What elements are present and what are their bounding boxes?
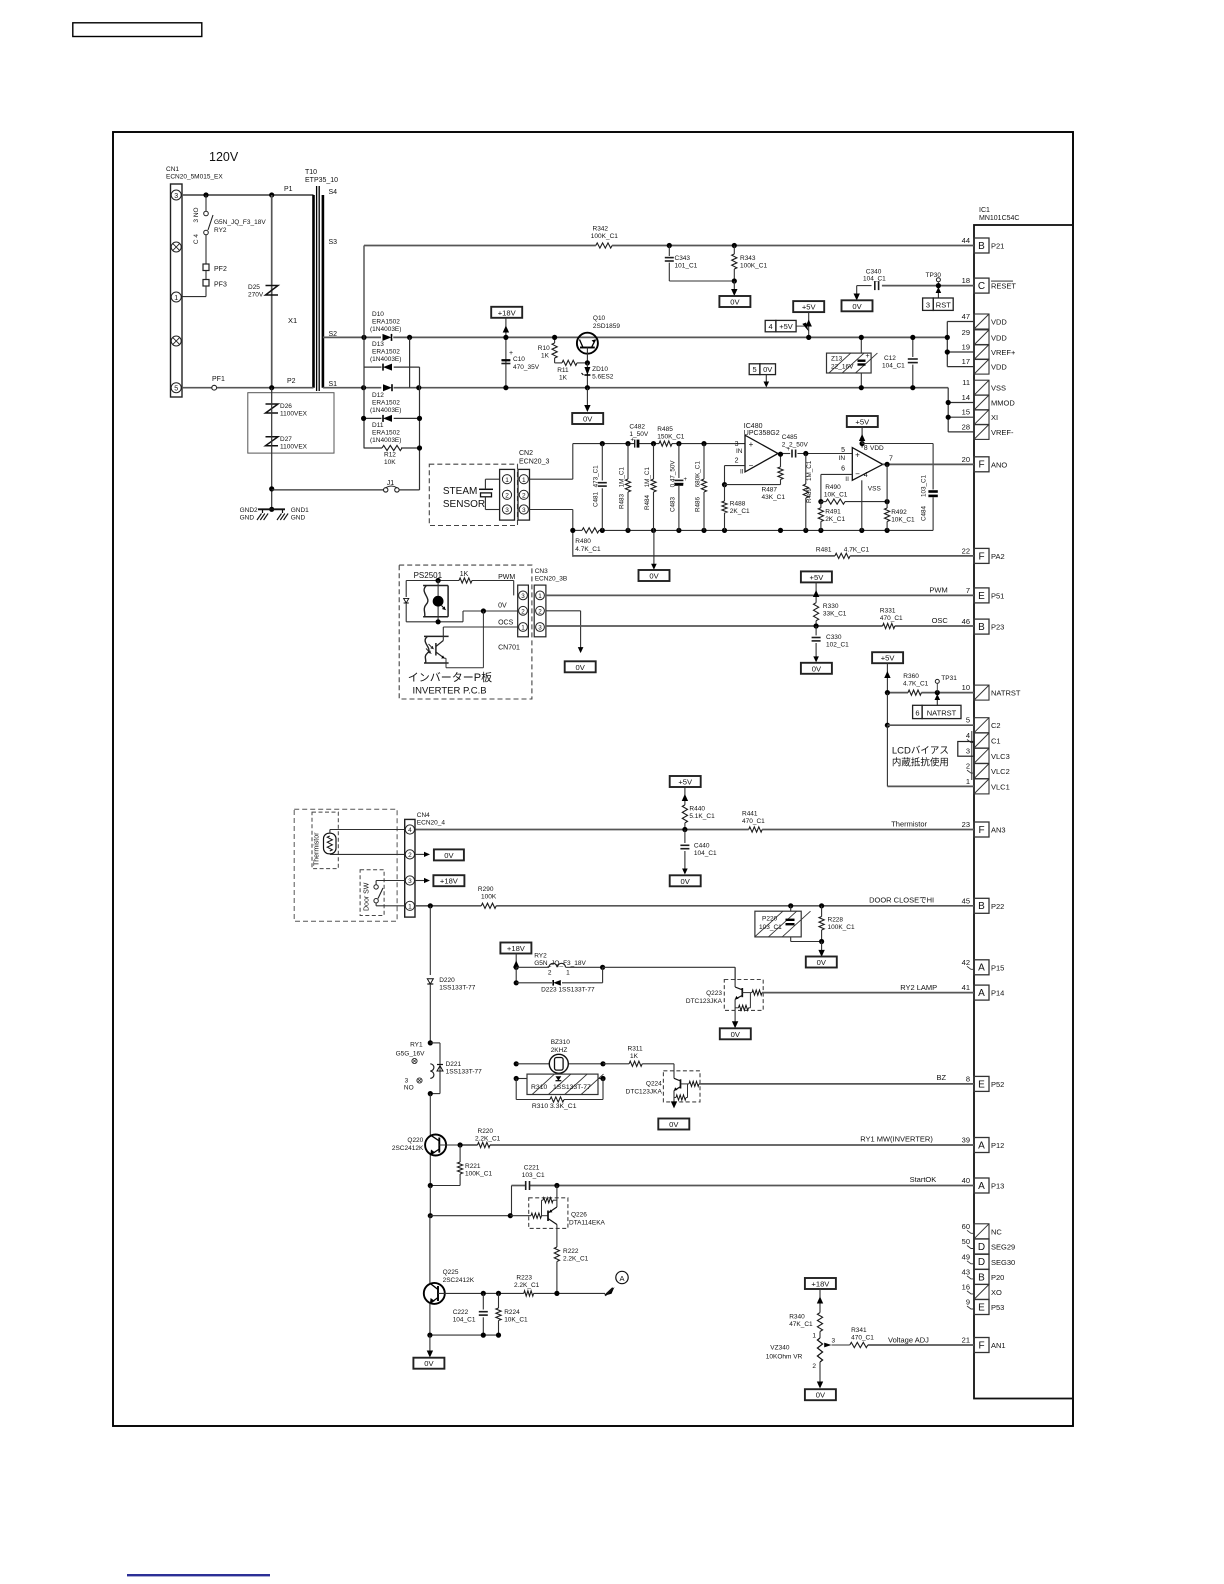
svg-text:ZD10: ZD10 [592,366,608,373]
svg-text:45: 45 [962,896,970,905]
wire opamp2 out to ANO [883,463,974,465]
optocoupler PS2501 A [423,585,448,587]
svg-text:R228: R228 [828,917,844,924]
svg-text:D12: D12 [372,392,384,399]
power +18V (RY2) [500,943,531,954]
junction DOOR cn4 [428,903,433,908]
junction C10 bot [503,385,508,390]
wire S3/P21 row [364,245,596,247]
wire opamp1 out [778,453,790,455]
svg-text:43K_C1: 43K_C1 [762,494,786,501]
svg-text:XO: XO [991,1288,1002,1297]
capacitor C485 (series) [791,450,793,458]
svg-text:PWM: PWM [929,586,947,595]
transformer T10 primary [312,195,315,388]
diode D13 [383,364,392,371]
capacitor C343 [668,246,670,257]
IC pin 2 VLC2 [974,764,989,779]
power +18V (top) [491,307,522,318]
power +5V (VDD) [793,301,824,312]
net box 3 RST [923,298,934,310]
svg-text:2: 2 [548,970,552,977]
junction VDD29 [945,335,950,340]
svg-text:II: II [740,469,744,476]
svg-text:0V: 0V [812,664,822,673]
svg-text:C482: C482 [629,424,645,431]
junction Q10 base [585,360,590,365]
svg-text:R484: R484 [644,494,651,510]
wire S1/0V rail [323,387,381,389]
svg-text:3: 3 [966,746,970,755]
thermistor box [312,812,338,869]
junction bottom bus [600,528,605,533]
svg-text:C340: C340 [866,269,882,276]
svg-text:C10: C10 [513,356,525,363]
svg-text:60: 60 [962,1222,970,1231]
wire D11 row [364,417,382,419]
wire S2 rail [323,336,381,338]
svg-text:1: 1 [521,625,525,632]
diode D223 loop [515,967,517,983]
svg-text:+5V: +5V [678,778,693,787]
IC pin 22 PA2 [974,548,989,563]
svg-text:R480: R480 [575,538,591,545]
svg-text:4: 4 [966,731,970,740]
junction C12 top [910,335,915,340]
svg-text:(1N4003E): (1N4003E) [370,326,401,333]
IC pin 45 P22 [974,898,989,913]
power 0V (op bus) [639,570,670,581]
wire opamp top bus [573,443,635,445]
svg-text:104_C1: 104_C1 [694,850,717,857]
svg-text:0V: 0V [669,1120,679,1129]
resistor R343 [733,246,735,255]
svg-text:P220: P220 [762,916,778,923]
svg-text:II: II [845,476,849,483]
power 0V (CN3) [565,661,596,672]
wire PWM row [406,580,459,582]
connector CN2 plug side [500,469,515,520]
svg-text:R340: R340 [789,1314,805,1321]
svg-text:NO: NO [404,1085,414,1092]
svg-text:1M_C1: 1M_C1 [619,467,626,488]
svg-text:0V: 0V [444,851,454,860]
svg-text:Q220: Q220 [407,1137,423,1144]
connector CN3 left [518,585,529,637]
IC pin 15 XI [974,410,989,425]
resistor R311 [603,1063,629,1065]
svg-text:470_35V: 470_35V [513,364,540,371]
svg-text:2.2K_C1: 2.2K_C1 [514,1282,540,1289]
svg-text:VSS: VSS [868,486,882,493]
svg-text:49: 49 [962,1252,970,1261]
svg-text:SENSOR: SENSOR [443,499,485,510]
svg-text:P13: P13 [991,1182,1004,1191]
junction top bus [701,441,706,446]
svg-text:ECN20_3: ECN20_3 [519,459,549,466]
svg-text:C1: C1 [991,737,1001,746]
svg-text:A: A [619,1274,624,1283]
svg-text:28: 28 [962,422,970,431]
svg-text:18: 18 [962,276,970,285]
svg-text:10: 10 [962,683,970,692]
svg-text:R489: R489 [806,487,813,503]
resistor R228 [821,906,823,917]
svg-text:A: A [978,1181,985,1192]
IC pin 43 P20 [974,1269,989,1284]
junction S1-b [416,385,421,390]
svg-text:R223: R223 [516,1275,532,1282]
svg-text:ERA1502: ERA1502 [372,319,400,326]
svg-text:RESET: RESET [991,282,1016,291]
svg-text:ECN20_3B: ECN20_3B [535,576,568,583]
capacitor C340 [874,281,876,290]
jumper J1 [272,489,384,491]
resistor R484 [653,444,655,479]
svg-text:ANO: ANO [991,460,1007,469]
svg-text:10KOhm VR: 10KOhm VR [766,1354,803,1361]
junction R10 top [552,335,557,340]
svg-text:D223 1SS133T-77: D223 1SS133T-77 [541,987,595,994]
resistor R10 [554,337,556,343]
arrow VZ340 0V [819,1362,821,1387]
svg-text:11: 11 [962,378,970,387]
IC pin 47 VDD [974,314,989,329]
svg-text:10K: 10K [384,459,396,466]
svg-text:VLC2: VLC2 [991,767,1010,776]
capacitor C12 [912,337,914,357]
svg-text:3: 3 [522,507,526,514]
junction buzzer left [514,1061,519,1066]
svg-text:103_C1: 103_C1 [522,1172,545,1179]
svg-text:T10: T10 [305,169,317,176]
svg-text:41: 41 [962,983,970,992]
resistor R487 [778,467,783,480]
junction opto anode [436,578,441,583]
IC pin 11 VSS [974,380,989,395]
svg-text:2SD1859: 2SD1859 [593,323,620,330]
op-amp U480B [852,448,882,481]
svg-text:+18V: +18V [811,1280,830,1289]
power 0V (under C340) [842,300,873,311]
svg-text:21: 21 [962,1336,970,1345]
svg-text:50: 50 [962,1237,970,1246]
svg-text:GND2: GND2 [240,507,258,514]
wire C485 to opamp2 [797,453,852,455]
svg-text:C483: C483 [669,496,676,512]
capacitor C482 (series) [634,440,636,448]
svg-text:3: 3 [521,593,525,600]
svg-text:2: 2 [521,608,525,615]
svg-text:10K_C1: 10K_C1 [504,1317,528,1324]
svg-text:P12: P12 [991,1141,1004,1150]
svg-text:+: + [787,447,791,453]
capacitor C484 [932,444,934,490]
junction DOOR b [819,903,824,908]
svg-text:−: − [855,470,860,479]
wire opamp2 minus [821,473,852,475]
power 0V (Q225) [413,1358,444,1369]
svg-text:4: 4 [864,472,868,479]
svg-text:F: F [978,1340,984,1351]
wire CN2-3 down [530,509,573,511]
svg-text:CN4: CN4 [417,812,430,819]
wire PWM to P51 [546,594,974,596]
junction bottom bus [625,528,630,533]
wire Z13 vertical [860,337,862,353]
svg-text:3: 3 [174,193,178,200]
resistor R224 [498,1293,500,1308]
svg-text:C343: C343 [675,255,691,262]
svg-text:R224: R224 [504,1309,520,1316]
arrow +5V opamp [861,427,863,444]
svg-text:D221: D221 [446,1061,462,1068]
small diode (inverter) [405,581,407,598]
op-amp U480A UPC358G2 [745,435,778,472]
junction ZD10 bottom [585,385,590,390]
wire VLC1 row [887,785,974,787]
power 0V (CN4) [434,849,464,860]
svg-text:44: 44 [962,236,970,245]
svg-text:16: 16 [962,1282,970,1291]
svg-text:0V: 0V [649,572,659,581]
connector CN4 body [405,819,415,917]
svg-text:F: F [978,825,984,836]
wire opto2 emitter [445,657,447,659]
transistor Q220 2SC2412K [425,1135,446,1156]
svg-text:+: + [866,353,870,360]
svg-text:R290: R290 [478,886,494,893]
wire Q220 emitter down [429,1155,431,1186]
junction OCS branch [481,608,486,613]
IC pin 39 P12 [974,1138,989,1153]
svg-text:UPC358G2: UPC358G2 [744,430,780,437]
svg-text:VZ340: VZ340 [770,1345,790,1352]
svg-text:VREF-: VREF- [991,428,1014,437]
svg-text:R488: R488 [730,501,746,508]
svg-text:R483: R483 [619,493,626,509]
transformer T10 secondary [322,195,325,388]
svg-text:1K: 1K [559,375,568,382]
svg-text:R486: R486 [695,496,702,512]
svg-text:OSC: OSC [932,616,949,625]
resistor R340 [817,1313,822,1332]
wire OCS row [443,626,517,628]
IC pin 7 P51 [974,588,989,603]
resistor R440 [682,805,687,823]
svg-text:IN: IN [839,455,846,462]
svg-text:104_C1: 104_C1 [453,1317,476,1324]
node A [605,1287,615,1296]
arrow NATRST box [936,699,938,705]
arrow +5V R440 [684,787,686,805]
svg-text:1: 1 [174,295,178,302]
svg-text:473_C1: 473_C1 [593,465,600,488]
spark gap D26 [266,404,279,413]
junction VDD19 [945,349,950,354]
svg-text:5: 5 [174,386,178,393]
svg-text:R220: R220 [478,1128,494,1135]
svg-text:DTA114EKA: DTA114EKA [569,1220,606,1227]
svg-text:S3: S3 [329,239,338,246]
svg-text:C2: C2 [991,721,1001,730]
svg-text:P22: P22 [991,902,1004,911]
svg-text:R330: R330 [823,603,839,610]
junction RY1 bottom [428,1091,433,1096]
IC pin 1 VLC1 [974,779,989,794]
svg-text:ERA1502: ERA1502 [372,349,400,356]
wire StartOK row [512,1185,527,1187]
svg-text:10K_C1: 10K_C1 [824,492,848,499]
junction R221 top [458,1142,463,1147]
svg-text:3: 3 [505,507,509,514]
resistor R290 [481,903,496,908]
svg-text:AN1: AN1 [991,1341,1006,1350]
power 0V (VZ340) [805,1389,836,1400]
junction bus PA2 [570,528,575,533]
svg-text:P21: P21 [991,242,1004,251]
junction R330/C330 [814,623,819,628]
svg-text:A: A [978,963,985,974]
inverter PCB enclosure [399,565,532,699]
junction DOOR a [788,903,793,908]
wire opamp1 minus [725,465,746,467]
svg-text:1: 1 [505,477,509,484]
junction P1 node [269,192,274,197]
svg-text:OCS: OCS [498,620,513,627]
footer underline [127,1574,270,1576]
svg-text:C 4: C 4 [193,234,200,245]
svg-text:2K_C1: 2K_C1 [825,516,845,523]
svg-text:S4: S4 [329,189,338,196]
svg-text:VLC3: VLC3 [991,752,1010,761]
svg-text:F: F [978,551,984,562]
junction RY2 coil right [600,965,605,970]
junction R310 right [600,1076,605,1081]
svg-text:0V: 0V [731,1030,741,1039]
junction R343 bottom [732,278,737,283]
svg-text:0V: 0V [424,1359,434,1368]
svg-text:2: 2 [522,492,526,499]
svg-text:7: 7 [889,456,893,463]
svg-text:0V: 0V [681,877,691,886]
svg-text:23: 23 [962,820,970,829]
svg-text:+5V: +5V [779,322,793,331]
svg-text:3 NO: 3 NO [193,207,200,222]
svg-text:Q10: Q10 [593,315,606,322]
transistor Q223 DTC123JKA [724,980,763,1011]
IC pin 3 VLC3 [974,748,989,763]
svg-text:VDD: VDD [991,333,1007,342]
svg-text:Q224: Q224 [646,1081,662,1088]
svg-text:6: 6 [915,709,919,718]
connector CN2 board side [518,469,530,520]
IC pin 29 VDD [974,330,989,345]
junction opamp1 out [778,452,783,457]
svg-text:1: 1 [538,593,542,600]
IC pin 9 P53 [974,1300,989,1315]
thermistor enclosure [294,809,397,921]
svg-text:BZ: BZ [937,1073,947,1082]
junction P2 [269,385,274,390]
ground GND2/GND1 symbols [258,508,285,510]
connector CN3 right [534,585,546,637]
svg-text:VREF+: VREF+ [991,348,1016,357]
connector CN1 body [171,184,183,397]
svg-text:ERA1502: ERA1502 [372,400,400,407]
svg-text:1K: 1K [541,353,550,360]
svg-text:R360: R360 [903,673,919,680]
svg-text:Door SW: Door SW [364,882,371,911]
svg-text:4.7K_C1: 4.7K_C1 [903,681,929,688]
wire opto cathode row [406,621,463,623]
junction bottom bus [818,528,823,533]
svg-text:C12: C12 [884,355,896,362]
transistor Q224 DTC123JKA [663,1071,700,1102]
svg-text:CN3: CN3 [535,568,548,575]
IC pin 4 C1 [974,733,989,748]
svg-text:46: 46 [962,617,970,626]
wire OSC to P23 [546,625,883,627]
IC pin 41 P14 [974,985,989,1000]
svg-text:C485: C485 [782,434,798,441]
svg-text:IC480: IC480 [744,423,763,430]
arrow Q223 0V [734,1010,736,1026]
svg-text:R487: R487 [762,487,778,494]
IC pin 10 NATRST [974,685,989,700]
svg-text:MMOD: MMOD [991,399,1015,408]
arrow Q224 0V [671,1101,677,1108]
IC pin 5 C2 [974,718,989,733]
junction C343 top [667,243,672,248]
wire CN1-5 to P2 (PF1) [182,387,212,389]
arrow +18V RY2 [515,954,517,968]
svg-text:MN101C54C: MN101C54C [979,215,1019,222]
svg-text:B: B [978,241,985,252]
arrow DOOR 0V [821,942,823,956]
junction top bus [625,441,630,446]
svg-text:2.2K_C1: 2.2K_C1 [475,1136,501,1143]
svg-text:C484: C484 [921,505,928,521]
svg-text:4.7K_C1: 4.7K_C1 [844,547,870,554]
junction R310 left [514,1076,519,1081]
svg-text:SEG29: SEG29 [991,1243,1015,1252]
svg-text:3: 3 [926,300,930,309]
IC pin 14 MMOD [974,395,989,410]
junction S2-b [407,335,412,340]
capacitor C440 [684,830,686,844]
IC U1 MN101C54C body [974,225,1073,1399]
svg-text:B: B [978,901,985,912]
svg-text:D: D [978,1257,985,1268]
junction R440 bottom [682,827,687,832]
power 0V (under ZD10) [572,413,603,424]
svg-text:0V: 0V [583,415,593,424]
svg-text:E: E [978,1079,985,1090]
door switch [374,885,378,889]
svg-text:IC1: IC1 [979,207,990,214]
svg-text:5: 5 [966,716,970,725]
svg-text:VDD: VDD [870,445,884,452]
resistor R491 [820,502,822,508]
svg-text:D10: D10 [372,311,384,318]
junction Z13 bot [859,385,864,390]
svg-text:2SC2412K: 2SC2412K [443,1277,475,1284]
power +5V (opamp) [847,416,878,427]
svg-text:1K: 1K [460,571,469,578]
svg-text:10K_C1: 10K_C1 [891,517,915,524]
svg-text:150K_C1: 150K_C1 [657,434,684,441]
